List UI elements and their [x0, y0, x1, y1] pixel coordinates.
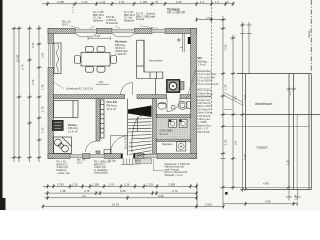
- carport 4.98 dim label: [244, 182, 289, 191]
- WC label + leader: [198, 56, 204, 60]
- svg-text:1.26: 1.26: [72, 182, 78, 186]
- window N2 thin lines: [112, 28, 134, 30]
- svg-text:4.75: 4.75: [84, 189, 90, 193]
- wall south segment 4: [135, 154, 144, 159]
- svg-text:4.11: 4.11: [243, 94, 247, 100]
- wall build-up annotation list: [196, 69, 219, 134]
- svg-text:2.8: 2.8: [234, 141, 238, 145]
- stair walk line: [132, 115, 143, 153]
- window N2 splay reveal: [112, 34, 134, 37]
- svg-text:1.9 m²: 1.9 m²: [198, 63, 206, 67]
- entrance landing hatched pad: [135, 159, 152, 164]
- svg-text:18 x 17.5/27: 18 x 17.5/27: [125, 135, 128, 149]
- wall north segment 4: [165, 28, 197, 33]
- svg-text:5.26: 5.26: [120, 189, 126, 193]
- HWR stippled floor: [157, 118, 191, 139]
- chair top-right: [97, 46, 105, 52]
- svg-text:1.765: 1.765: [57, 182, 64, 186]
- wall east: [191, 28, 197, 158]
- svg-text:2.26: 2.26: [95, 34, 101, 38]
- svg-text:1.51: 1.51: [224, 139, 228, 145]
- svg-text:Raffstore: Raffstore: [93, 19, 104, 22]
- svg-text:11.9 m²: 11.9 m²: [107, 107, 117, 111]
- svg-text:1.0: 1.0: [200, 0, 204, 4]
- door living room (in wall A): [121, 83, 133, 95]
- bottom right chain: [224, 200, 299, 206]
- svg-text:Festvgl.: Festvgl.: [136, 18, 145, 21]
- ramp diagonal between house and shed: [224, 93, 244, 103]
- chair right: [111, 56, 117, 64]
- door WC: [167, 99, 180, 112]
- leader dotted top: [72, 4, 74, 13]
- svg-text:Lichtschacht: Lichtschacht: [94, 172, 108, 175]
- interior wall B stub: [96, 151, 100, 154]
- door dim 1.01 at living door: [96, 80, 109, 84]
- svg-text:14.24: 14.24: [112, 203, 119, 207]
- svg-text:6.99: 6.99: [158, 194, 164, 198]
- svg-text:1.76: 1.76: [109, 182, 115, 186]
- interior wall D (WC/HWR divider): [157, 115, 191, 119]
- svg-text:3.16: 3.16: [31, 42, 35, 48]
- notes below south wall right: [165, 163, 191, 177]
- interior wall A segment 2: [137, 95, 167, 99]
- sofa L-shape: [137, 40, 163, 78]
- svg-text:s. Detail: s. Detail: [146, 15, 155, 18]
- interior wall B (kitchen/hall): [96, 99, 100, 141]
- svg-text:Abstellraum: Abstellraum: [255, 102, 273, 106]
- top dimension chain: [42, 3, 234, 5]
- svg-text:2.26: 2.26: [31, 79, 35, 85]
- svg-text:1.01: 1.01: [100, 0, 106, 4]
- fireplace (Kamin): [167, 80, 180, 92]
- entrance door jambs: [121, 154, 135, 159]
- svg-text:1.26: 1.26: [124, 182, 130, 186]
- washing machine: [169, 119, 177, 127]
- bottom dimension chain 1 (detailed): [42, 183, 224, 208]
- notes below south wall left: [57, 159, 111, 176]
- window S3 thin lines: [144, 153, 157, 155]
- notes above north wall: [62, 11, 156, 26]
- window S1 (kitchen) thin lines: [70, 153, 83, 155]
- svg-text:unterk. Gel.: unterk. Gel.: [58, 172, 71, 175]
- svg-text:Speisek.: Speisek.: [162, 142, 173, 146]
- radiator on west wall: [54, 43, 61, 74]
- window N1 splay reveal: [75, 34, 96, 37]
- door swing cross mark: [177, 38, 181, 42]
- chair bottom-left: [86, 66, 94, 72]
- wall south segment 5: [157, 154, 197, 159]
- shoe cabinet at entrance: [104, 149, 111, 153]
- abstellraum outline top: [237, 73, 311, 75]
- svg-text:7.49: 7.49: [243, 154, 247, 160]
- stair treads: [128, 117, 152, 155]
- partition screen near east wall top: [180, 34, 184, 53]
- svg-text:1.0: 1.0: [215, 0, 219, 4]
- svg-text:62.5: 62.5: [77, 161, 82, 164]
- svg-text:62.5: 62.5: [136, 162, 141, 165]
- svg-text:1.135: 1.135: [140, 0, 147, 4]
- svg-text:12.49: 12.49: [16, 55, 20, 62]
- svg-text:2.01: 2.01: [41, 52, 45, 58]
- svg-text:1.51: 1.51: [119, 0, 125, 4]
- svg-text:3.74: 3.74: [172, 189, 178, 193]
- WC floor drain: [172, 106, 175, 109]
- svg-text:KfW 55 EE: KfW 55 EE: [197, 130, 210, 134]
- right building inner dim ticks: [286, 88, 301, 201]
- door kitchen (in wall B): [86, 141, 97, 152]
- svg-text:Raffstore: Raffstore: [124, 19, 135, 22]
- chair top-left: [86, 46, 94, 52]
- wall south segment 2: [83, 154, 91, 159]
- stair dark wedge (upper flight cut): [128, 106, 152, 118]
- kitchen corner sink unit: [54, 137, 72, 154]
- svg-text:1.34: 1.34: [294, 194, 298, 200]
- wall north segment 2: [97, 28, 113, 33]
- svg-text:Schwelle < 2 cm: Schwelle < 2 cm: [165, 174, 183, 177]
- wall west upper segment: [48, 28, 54, 44]
- scan edge strip left: [0, 0, 3, 210]
- right side vertical dimension chains: [223, 16, 249, 205]
- svg-text:3.385: 3.385: [168, 182, 175, 186]
- inner wall column line 2: [293, 74, 295, 190]
- svg-text:2.4: 2.4: [288, 91, 292, 95]
- svg-text:= 281.87: = 281.87: [115, 52, 127, 56]
- right building east edge: [308, 74, 310, 190]
- svg-text:1.38: 1.38: [60, 189, 66, 193]
- WC washbasin: [158, 102, 166, 109]
- pantry appliance: [177, 142, 186, 151]
- wall north segment 3: [134, 28, 152, 33]
- kitchen hob dark box: [52, 120, 63, 130]
- fireplace flue stub: [180, 82, 185, 90]
- inner wall column line 1: [288, 74, 290, 190]
- stair left boundary: [127, 99, 129, 156]
- wall west lower segment: [48, 67, 54, 158]
- window N3 thin lines: [152, 28, 165, 30]
- svg-text:5.1 m²: 5.1 m²: [160, 132, 168, 136]
- svg-text:281.5: 281.5: [62, 23, 69, 26]
- inner dim line at 297: [296, 115, 298, 190]
- svg-text:1.385: 1.385: [92, 182, 99, 186]
- svg-text:Schiebetür-El. 1.01/2.26: Schiebetür-El. 1.01/2.26: [66, 88, 93, 91]
- svg-text:1.38: 1.38: [41, 84, 45, 90]
- divider abstellraum/carport: [246, 114, 320, 116]
- svg-text:Kaminecke: Kaminecke: [149, 59, 163, 63]
- entrance door swing: [110, 136, 128, 154]
- window N1 thin lines: [75, 28, 96, 30]
- interior wall E (HWR/pantry divider): [157, 139, 191, 142]
- interior wall C (hall/HWR): [153, 99, 157, 154]
- carport bottom secondary line: [223, 186, 311, 188]
- svg-text:Grenze: Grenze: [308, 29, 311, 38]
- interior wall A segment 3: [180, 95, 191, 99]
- dining table: [81, 53, 110, 67]
- svg-text:11.6 m²: 11.6 m²: [68, 130, 78, 134]
- carport top secondary line: [223, 125, 309, 127]
- svg-text:1.76: 1.76: [41, 106, 45, 112]
- svg-text:1.70: 1.70: [285, 159, 289, 165]
- window west (thin lines): [48, 44, 50, 67]
- svg-text:4.99: 4.99: [265, 200, 271, 204]
- wall south segment 1: [48, 154, 70, 159]
- room label kitchen: [68, 123, 79, 134]
- interior wall A segment 1 (living/kitchen divider): [54, 95, 125, 99]
- WC toilet: [158, 101, 190, 109]
- left dimension chain lines: [14, 25, 39, 162]
- room label living room: [115, 40, 127, 44]
- svg-text:Carport: Carport: [257, 146, 268, 150]
- svg-text:1.25: 1.25: [224, 84, 228, 90]
- property boundary dash-dot line: [310, 0, 312, 72]
- svg-text:3.435: 3.435: [57, 0, 64, 4]
- svg-text:2.26: 2.26: [224, 44, 228, 50]
- wardrobe in hall: [100, 100, 104, 138]
- svg-text:76: 76: [155, 0, 159, 4]
- chair left: [74, 56, 80, 64]
- svg-text:4.2: 4.2: [82, 194, 86, 198]
- svg-text:2.515: 2.515: [205, 203, 212, 207]
- kitchen counter: [54, 101, 79, 118]
- svg-text:2.26: 2.26: [176, 0, 182, 4]
- svg-text:1.26: 1.26: [41, 127, 45, 133]
- svg-text:1.50: 1.50: [206, 16, 212, 20]
- svg-text:1.26: 1.26: [82, 0, 88, 4]
- room label HWR: [160, 129, 173, 136]
- BRH note at door: [108, 160, 141, 166]
- room label hall: [107, 100, 118, 111]
- entrance steps outside: [121, 159, 135, 165]
- wall south segment 3: [104, 154, 121, 159]
- wall north segment 1: [48, 28, 75, 33]
- chair bottom-right: [97, 66, 105, 72]
- svg-text:Schiebetür: Schiebetür: [106, 22, 118, 25]
- svg-text:4.2: 4.2: [234, 96, 238, 100]
- dryer: [179, 119, 187, 127]
- carport bottom: [246, 189, 312, 191]
- left edge carport/abstellraum: [245, 74, 247, 190]
- svg-text:4.98: 4.98: [263, 182, 269, 186]
- svg-text:OK ± 280.45: OK ± 280.45: [167, 11, 185, 15]
- terrace door dark threshold on east wall: [188, 37, 191, 44]
- svg-text:1.01: 1.01: [99, 80, 105, 84]
- svg-text:6.74: 6.74: [21, 64, 25, 70]
- small 2.01 label block: [225, 192, 228, 195]
- window S2 thin lines: [90, 153, 104, 155]
- label Terrasse: [167, 8, 185, 15]
- svg-text:21 Stg.: 21 Stg.: [108, 160, 116, 163]
- interior small dim under window N1: [88, 34, 111, 40]
- top right small dim (1.50): [195, 16, 226, 22]
- svg-text:1.135: 1.135: [146, 182, 153, 186]
- terrace boundary dotted line: [211, 0, 213, 115]
- abstellraum bottom dim extension: [222, 114, 246, 116]
- leader lines from notes to windows: [70, 26, 158, 29]
